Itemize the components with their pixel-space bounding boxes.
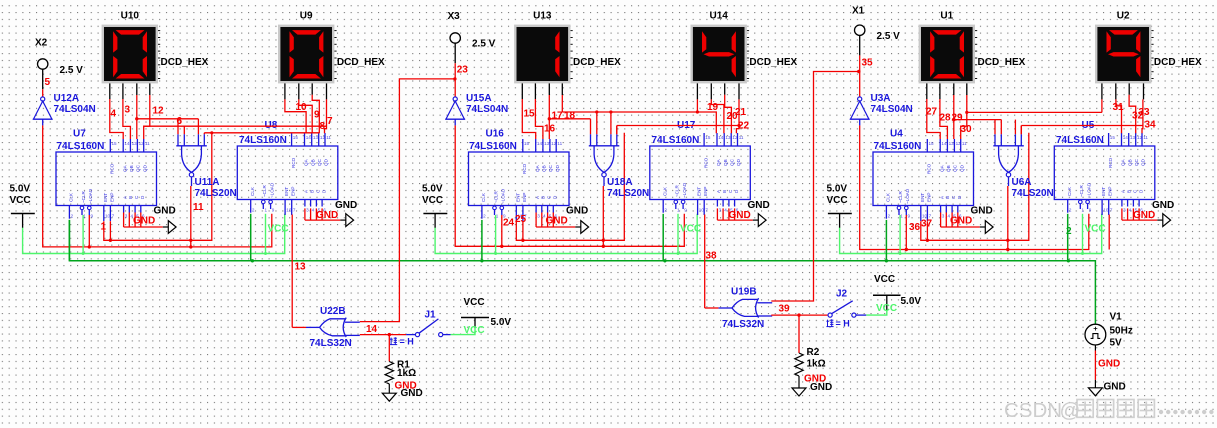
svg-text:RCO: RCO — [110, 163, 115, 174]
svg-text:CLK: CLK — [250, 186, 255, 196]
svg-text:74LS20N: 74LS20N — [607, 188, 649, 199]
svg-text:3: 3 — [537, 214, 540, 219]
svg-text:GND: GND — [133, 216, 155, 227]
display U13 leads — [522, 83, 562, 99]
display U9 leads — [285, 83, 327, 99]
svg-text:19: 19 — [707, 102, 719, 113]
svg-text:12: 12 — [320, 135, 326, 140]
svg-text:B: B — [722, 190, 727, 193]
svg-text:11: 11 — [739, 135, 744, 140]
svg-text:U12A: U12A — [54, 93, 80, 104]
svg-text:74LS160N: 74LS160N — [239, 135, 287, 146]
power VCC 5.0V at J2 — [873, 274, 921, 310]
svg-text:3: 3 — [125, 214, 128, 219]
svg-text:1: 1 — [900, 214, 903, 219]
svg-text:U4: U4 — [890, 129, 903, 140]
ground symbol at R1 — [382, 393, 396, 401]
svg-text:10: 10 — [105, 214, 111, 219]
svg-text:ENT: ENT — [920, 193, 925, 202]
svg-text:24: 24 — [503, 218, 515, 229]
wire ENP jog cluster3 — [926, 221, 928, 240]
wire U14 lead4 to QD — [736, 99, 739, 133]
wire NAND input risers cluster2 — [591, 112, 617, 134]
svg-text:2.5 V: 2.5 V — [472, 39, 496, 50]
svg-text:74LS20N: 74LS20N — [195, 188, 237, 199]
svg-text:VCC: VCC — [680, 224, 701, 235]
svg-text:13: 13 — [1130, 135, 1136, 140]
svg-text:= H: = H — [400, 336, 414, 346]
7-segment display U10 DCD_HEX showing 0 — [102, 25, 161, 84]
svg-text:14: 14 — [124, 141, 130, 146]
svg-text:CLK: CLK — [69, 192, 74, 202]
svg-text:B: B — [945, 196, 950, 199]
power VCC 5.0V symbol cluster1 — [10, 184, 35, 228]
svg-text:1: 1 — [83, 214, 86, 219]
svg-text:CLK: CLK — [886, 192, 891, 202]
svg-text:9: 9 — [908, 214, 911, 219]
display U14 leads — [697, 83, 739, 99]
svg-text:GND: GND — [950, 216, 972, 227]
svg-text:ENP: ENP — [1108, 187, 1113, 196]
wire U9 lead2 to QB — [299, 99, 312, 133]
junction dots VCC trunk cluster2 — [494, 252, 679, 255]
wire ~CLR pullups cluster1 — [82, 215, 84, 254]
svg-text:13: 13 — [725, 135, 731, 140]
svg-text:74LS160N: 74LS160N — [469, 141, 517, 152]
wire U10 QA lead — [110, 99, 123, 139]
svg-text:5.0V: 5.0V — [10, 184, 31, 195]
svg-text:QA: QA — [939, 164, 944, 172]
svg-text:U16: U16 — [486, 129, 505, 140]
wire clock net dark green trunk (U7 CLK to V1) — [69, 220, 1095, 324]
svg-text:QC: QC — [317, 158, 322, 166]
svg-text:21: 21 — [735, 107, 747, 118]
svg-text:13: 13 — [132, 141, 138, 146]
svg-text:VCC: VCC — [268, 224, 289, 235]
svg-text:2: 2 — [71, 214, 74, 219]
svg-text:33: 33 — [1139, 107, 1151, 118]
wire lamp X1 down to inverter — [859, 35, 861, 55]
svg-text:2: 2 — [252, 208, 255, 213]
svg-text:74LS32N: 74LS32N — [722, 319, 764, 330]
svg-text:V1: V1 — [1110, 312, 1123, 323]
svg-text:GND: GND — [566, 206, 588, 217]
wire inverter U12A output down — [42, 119, 44, 125]
svg-text:30: 30 — [961, 124, 973, 135]
svg-text:QA: QA — [1121, 158, 1126, 166]
wire ENP riser to OR output cluster3 — [1108, 215, 1110, 250]
svg-text:7: 7 — [1110, 208, 1113, 213]
svg-text:7: 7 — [293, 208, 296, 213]
svg-text:QC: QC — [548, 164, 553, 172]
svg-text:B: B — [310, 190, 315, 193]
svg-text:11: 11 — [326, 135, 331, 140]
probe lamp X3 2.5V — [448, 11, 496, 50]
svg-text:5.0V: 5.0V — [491, 317, 512, 328]
svg-text:ENP: ENP — [109, 193, 114, 202]
svg-text:1kΩ: 1kΩ — [807, 359, 826, 370]
wire net 23: X3 node down to U22B top input — [360, 79, 455, 322]
svg-text:74LS04N: 74LS04N — [54, 104, 96, 115]
power VCC 5.0V symbol cluster2 — [422, 184, 447, 228]
wire V1 to ground — [1094, 345, 1096, 388]
svg-text:9: 9 — [91, 214, 94, 219]
wire NAND input risers cluster3 — [995, 120, 1021, 135]
svg-text:9: 9 — [684, 208, 687, 213]
key label of J1 — [390, 337, 397, 344]
7-segment display U9 DCD_HEX showing 0 — [278, 25, 337, 84]
wire U1 QB lead — [940, 99, 948, 139]
svg-text:6: 6 — [177, 116, 183, 127]
svg-text:14: 14 — [306, 135, 312, 140]
wire enable net red trunk-A cluster1 — [104, 133, 212, 241]
svg-text:= H: = H — [836, 319, 850, 329]
svg-text:15: 15 — [705, 135, 711, 140]
wire J2 to VCC light green — [866, 310, 887, 315]
svg-text:QB: QB — [542, 165, 547, 172]
svg-text:U3A: U3A — [871, 93, 891, 104]
svg-text:DCD_HEX: DCD_HEX — [161, 57, 209, 68]
wire QD net h2 cluster1 — [144, 125, 327, 127]
svg-text:14: 14 — [718, 135, 724, 140]
svg-text:11: 11 — [145, 141, 150, 146]
svg-text:CLK: CLK — [1067, 186, 1072, 196]
svg-text:14: 14 — [941, 141, 947, 146]
svg-text:1: 1 — [496, 214, 499, 219]
wire U10 QD lead — [144, 95, 150, 139]
wire lamp X3 down to inverter — [454, 43, 456, 63]
wire NAND output to trunk cluster3 — [1007, 186, 1009, 250]
svg-text:B: B — [1127, 190, 1132, 193]
svg-text:U14: U14 — [710, 11, 729, 22]
wire U2 lead2 to QA — [1116, 99, 1122, 133]
svg-text:12: 12 — [551, 141, 557, 146]
svg-text:23: 23 — [457, 65, 469, 76]
svg-text:~CLR: ~CLR — [493, 190, 498, 203]
svg-text:X2: X2 — [35, 37, 48, 48]
svg-text:ENT: ENT — [1101, 187, 1106, 196]
svg-text:2.5 V: 2.5 V — [877, 31, 901, 42]
svg-text:ENT: ENT — [103, 193, 108, 202]
wire NAND feed h1 cluster1 — [137, 118, 199, 120]
svg-text:16: 16 — [544, 124, 556, 135]
svg-text:9: 9 — [1089, 208, 1092, 213]
svg-text:VCC: VCC — [464, 297, 485, 308]
svg-text:5.0V: 5.0V — [827, 184, 848, 195]
svg-text:QD: QD — [142, 164, 147, 172]
svg-text:2: 2 — [483, 214, 486, 219]
svg-text:QC: QC — [953, 164, 958, 172]
svg-text:GND: GND — [154, 206, 176, 217]
svg-text:15: 15 — [112, 141, 118, 146]
svg-text:15: 15 — [524, 141, 530, 146]
svg-text:VCC: VCC — [10, 195, 31, 206]
svg-text:J2: J2 — [836, 289, 848, 300]
wire U22B bottom input to switch J1 — [360, 334, 406, 336]
wire NAND output to trunk cluster2 — [602, 186, 604, 246]
svg-text:ENT: ENT — [284, 187, 289, 196]
svg-text:~LOAD: ~LOAD — [269, 182, 274, 198]
wire ENP jog cluster2 — [522, 221, 524, 240]
wire NAND output to trunk cluster1 — [190, 186, 192, 247]
svg-text:3: 3 — [125, 105, 131, 116]
svg-text:36: 36 — [909, 222, 921, 233]
svg-text:CSDN: CSDN — [1004, 399, 1062, 422]
svg-text:1: 1 — [101, 222, 107, 233]
power VCC 5.0V at J1 — [461, 297, 511, 328]
wire enable net red trunk-A cluster3 — [921, 133, 1029, 241]
svg-text:12: 12 — [153, 106, 165, 117]
svg-text:9: 9 — [314, 110, 320, 121]
wire load net red trunk-B cluster2 — [455, 125, 684, 246]
svg-text:14: 14 — [537, 141, 543, 146]
svg-text:QB: QB — [723, 159, 728, 166]
svg-text:QA: QA — [716, 158, 721, 166]
GND net flag: red bus and arrow connector — [536, 213, 589, 234]
svg-text:ENP: ENP — [522, 193, 527, 202]
svg-text:35: 35 — [862, 58, 874, 69]
svg-text:VCC: VCC — [876, 303, 897, 314]
svg-text:37: 37 — [921, 219, 933, 230]
svg-text:QA: QA — [535, 164, 540, 172]
svg-text:GND: GND — [748, 200, 770, 211]
svg-text:QA: QA — [304, 158, 309, 166]
svg-text:4: 4 — [724, 208, 727, 213]
wire U1 QA lead — [927, 99, 940, 139]
NAND gate U18A 74LS20N — [589, 134, 620, 186]
wire NAND feed h1 cluster2 — [549, 118, 590, 120]
svg-text:50Hz: 50Hz — [1110, 326, 1133, 337]
svg-text:ENT: ENT — [515, 193, 520, 202]
red net number labels cluster3 — [909, 102, 1156, 233]
svg-text:~CLR: ~CLR — [1079, 184, 1084, 197]
GND net flag: red bus and arrow connector — [124, 213, 177, 234]
svg-text:QD: QD — [555, 164, 560, 172]
display U2 leads — [1102, 83, 1144, 99]
svg-text:2: 2 — [1069, 208, 1072, 213]
svg-text:VCC: VCC — [464, 325, 485, 336]
svg-text:~CLR: ~CLR — [81, 190, 86, 203]
counter U7 74LS160N body — [56, 139, 157, 221]
svg-text:U22B: U22B — [320, 306, 346, 317]
inverter U12A 74LS04N — [33, 97, 53, 119]
wire R2 to ground — [798, 376, 800, 388]
svg-text:5: 5 — [45, 77, 51, 88]
wire U10 QB lead — [123, 99, 130, 139]
svg-text:74LS160N: 74LS160N — [57, 141, 105, 152]
svg-text:QA: QA — [122, 164, 127, 172]
svg-text:QD: QD — [959, 164, 964, 172]
wire ~CLR pullups cluster2 — [495, 215, 497, 254]
svg-text:VCC: VCC — [1085, 224, 1106, 235]
svg-text:QB: QB — [129, 165, 134, 172]
svg-text:U6A: U6A — [1012, 177, 1032, 188]
svg-text:74LS04N: 74LS04N — [871, 104, 913, 115]
wire U7 ~LOAD riser cluster1 — [88, 215, 90, 247]
svg-text:DCD_HEX: DCD_HEX — [337, 57, 385, 68]
svg-text:RCO: RCO — [291, 157, 296, 168]
red net number labels cluster2 — [503, 102, 750, 229]
wire CLK drops cluster1 — [68, 220, 70, 261]
svg-text:10: 10 — [699, 208, 705, 213]
GND net flag: red bus and arrow connector — [717, 208, 766, 226]
wire ENP jog cluster1 — [109, 221, 111, 240]
svg-text:74LS160N: 74LS160N — [652, 135, 700, 146]
svg-text:7: 7 — [112, 214, 115, 219]
wire U9 lead4 to QD — [325, 99, 327, 133]
svg-text:QC: QC — [136, 164, 141, 172]
svg-text:QB: QB — [946, 165, 951, 172]
key label of J2 — [826, 319, 833, 326]
wire CLK drops cluster2 — [481, 220, 483, 261]
wire NAND in4 line cluster2 — [617, 125, 739, 127]
svg-text:13: 13 — [295, 262, 307, 273]
svg-text:RCO: RCO — [522, 163, 527, 174]
wire U9 lead3 to QC — [312, 95, 319, 134]
svg-text:R2: R2 — [807, 347, 820, 358]
probe lamp X2 2.5V — [35, 37, 83, 76]
probe lamp X1 2.5V — [852, 6, 900, 43]
svg-text:VCC: VCC — [827, 195, 848, 206]
wire U7 ~LOAD riser cluster3 — [905, 215, 907, 250]
svg-text:X1: X1 — [852, 6, 865, 17]
svg-text:GND: GND — [401, 388, 423, 399]
svg-text:2.5 V: 2.5 V — [60, 65, 84, 76]
resistor R2 1kOhm — [795, 353, 803, 376]
svg-text:GND: GND — [1152, 200, 1174, 211]
counter U4 74LS160N body — [873, 139, 974, 221]
wire ENP riser to OR output cluster2 — [704, 215, 706, 309]
svg-text:GND: GND — [971, 206, 993, 217]
junction dots trunk-B cluster2 — [500, 245, 605, 248]
svg-text:18: 18 — [564, 111, 576, 122]
inverter U3A 74LS04N — [850, 97, 870, 119]
svg-text:11: 11 — [962, 141, 967, 146]
wire NAND in4 line cluster3 — [1021, 125, 1143, 127]
svg-text:U2: U2 — [1117, 11, 1130, 22]
svg-text:GND: GND — [335, 200, 357, 211]
svg-text:4: 4 — [312, 208, 315, 213]
svg-text:~LOAD: ~LOAD — [682, 182, 687, 198]
wire CLK drops cluster3 — [885, 220, 887, 261]
svg-text:QD: QD — [324, 158, 329, 166]
svg-text:39: 39 — [779, 304, 791, 315]
wire NAND feed h1 cluster3 — [954, 119, 1002, 121]
svg-text:28: 28 — [940, 113, 952, 124]
svg-text:QB: QB — [1127, 159, 1132, 166]
svg-text:~LOAD: ~LOAD — [905, 188, 910, 204]
svg-text:~CLR: ~CLR — [262, 184, 267, 197]
svg-text:1: 1 — [265, 208, 268, 213]
svg-text:10: 10 — [286, 208, 292, 213]
wire U2 lead1 — [1101, 99, 1103, 112]
junction dots trunk-B cluster1 — [88, 245, 193, 248]
svg-text:U7: U7 — [73, 129, 86, 140]
svg-text:GND: GND — [546, 216, 568, 227]
wire U13 QB lead — [535, 99, 543, 139]
junction dots clock trunk — [251, 259, 1070, 262]
wire U10 QC lead straight — [136, 95, 138, 139]
svg-text:12: 12 — [732, 135, 738, 140]
svg-text:15: 15 — [293, 135, 299, 140]
svg-text:CLK: CLK — [662, 186, 667, 196]
wire U19B bottom input to switch J2 — [771, 314, 827, 316]
svg-text:2: 2 — [664, 208, 667, 213]
wire junction down to R1 — [388, 335, 390, 362]
svg-text:B: B — [128, 196, 133, 199]
svg-text:DCD_HEX: DCD_HEX — [573, 57, 621, 68]
red net number labels cluster1 — [101, 102, 334, 233]
svg-text:12: 12 — [1137, 135, 1143, 140]
resistor R1 1kOhm — [385, 362, 393, 384]
svg-text:11: 11 — [193, 202, 204, 213]
svg-text:3: 3 — [942, 214, 945, 219]
svg-text:1kΩ: 1kΩ — [397, 368, 416, 379]
display U10 leads — [110, 83, 150, 99]
wire junction down to R2 — [798, 315, 800, 353]
wire U9 lead1 to QA — [285, 99, 306, 133]
svg-text:3: 3 — [306, 208, 309, 213]
svg-text:~LOAD: ~LOAD — [1086, 182, 1091, 198]
svg-text:14: 14 — [1123, 135, 1129, 140]
svg-text:U9: U9 — [300, 11, 313, 22]
svg-text:U1: U1 — [940, 11, 953, 22]
svg-text:7: 7 — [327, 116, 333, 127]
svg-text:12: 12 — [956, 141, 962, 146]
svg-text:VCC: VCC — [422, 195, 443, 206]
svg-text:+: + — [1093, 324, 1098, 333]
svg-text:U19B: U19B — [731, 287, 757, 298]
7-segment display U2 DCD_HEX showing 9 — [1095, 25, 1154, 84]
svg-text:13: 13 — [949, 141, 955, 146]
switch J1 — [406, 319, 450, 337]
wire U1 QD lead — [961, 95, 967, 139]
svg-text:5.0V: 5.0V — [901, 296, 922, 307]
wire U2 lead3 to QC — [1129, 95, 1136, 134]
inverter U15A 74LS04N — [445, 97, 465, 119]
svg-text:74LS32N: 74LS32N — [310, 338, 352, 349]
wire VCC light green trunk cluster2 — [435, 214, 697, 254]
svg-text:QB: QB — [310, 159, 315, 166]
wire VCC light green trunk cluster1 — [23, 214, 285, 254]
wire NAND input risers cluster1 — [178, 119, 204, 134]
svg-text:ENP: ENP — [926, 193, 931, 202]
wire U13 QD lead into top link — [561, 95, 563, 112]
svg-text:74LS20N: 74LS20N — [1012, 188, 1054, 199]
svg-text:QD: QD — [1141, 158, 1146, 166]
wire load net red trunk-B cluster1 — [43, 125, 272, 246]
svg-text:7: 7 — [705, 208, 708, 213]
svg-text:GND: GND — [316, 210, 338, 221]
svg-text:J1: J1 — [425, 310, 437, 321]
svg-text:RCO: RCO — [703, 157, 708, 168]
svg-text:4: 4 — [1129, 208, 1132, 213]
svg-text:1: 1 — [1082, 208, 1085, 213]
svg-text:15: 15 — [1110, 135, 1116, 140]
wire U1 QC lead straight — [953, 95, 955, 139]
svg-text:~CLR: ~CLR — [898, 190, 903, 203]
svg-text:U13: U13 — [533, 11, 552, 22]
svg-text:U8: U8 — [265, 120, 278, 131]
svg-text:29: 29 — [952, 113, 964, 124]
wire load net red trunk-B cluster3 — [860, 125, 1089, 249]
OR gate U19B 74LS32N — [718, 298, 772, 317]
svg-text:U15A: U15A — [466, 93, 492, 104]
svg-text:QD: QD — [736, 158, 741, 166]
wire U14 lead2 to QB — [711, 99, 724, 133]
svg-text:34: 34 — [1145, 120, 1157, 131]
GND net flag: red bus and arrow connector — [305, 208, 354, 226]
